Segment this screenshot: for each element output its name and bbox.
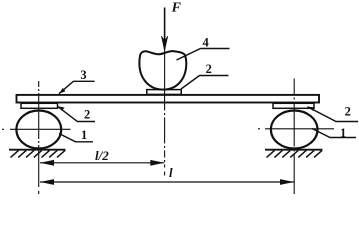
centerline right horizontal xyxy=(258,128,334,130)
centerline left vertical bottom dash xyxy=(38,191,40,194)
svg-text:F: F xyxy=(171,0,182,15)
centerline middle bottom dash xyxy=(164,172,166,176)
label 2 right with leader xyxy=(308,105,359,122)
left support plate 2 xyxy=(21,103,58,108)
right support plate 2 xyxy=(273,103,314,108)
label 2 center with leader xyxy=(181,62,229,89)
svg-text:1: 1 xyxy=(340,126,346,140)
dimension l xyxy=(40,165,294,185)
svg-text:4: 4 xyxy=(203,35,210,49)
right roller 1 xyxy=(271,111,318,149)
left roller 1 xyxy=(16,111,61,149)
svg-text:2: 2 xyxy=(345,105,351,119)
dimension l/2 xyxy=(40,148,164,166)
centerline middle vertical xyxy=(164,44,166,104)
svg-text:3: 3 xyxy=(80,68,86,82)
right ground xyxy=(265,150,323,158)
load nose 4 xyxy=(139,51,186,90)
svg-text:2: 2 xyxy=(84,107,90,121)
label 3 with leader xyxy=(59,68,95,94)
svg-text:l/2: l/2 xyxy=(95,148,109,163)
center loading plate 2 xyxy=(147,90,181,95)
label 4 with leader xyxy=(177,35,230,60)
beam specimen 3 xyxy=(17,95,320,103)
svg-text:1: 1 xyxy=(81,128,87,142)
centerline right vertical xyxy=(293,79,295,195)
label 1 left with leader xyxy=(59,128,93,142)
label 2 left with leader xyxy=(58,106,96,121)
centerline left horizontal xyxy=(2,128,71,130)
label 1 right with leader xyxy=(312,126,356,140)
svg-text:2: 2 xyxy=(206,62,212,76)
left ground xyxy=(9,150,66,158)
force F arrow xyxy=(161,8,167,51)
svg-text:l: l xyxy=(169,165,173,180)
centerline left vertical xyxy=(38,81,40,188)
